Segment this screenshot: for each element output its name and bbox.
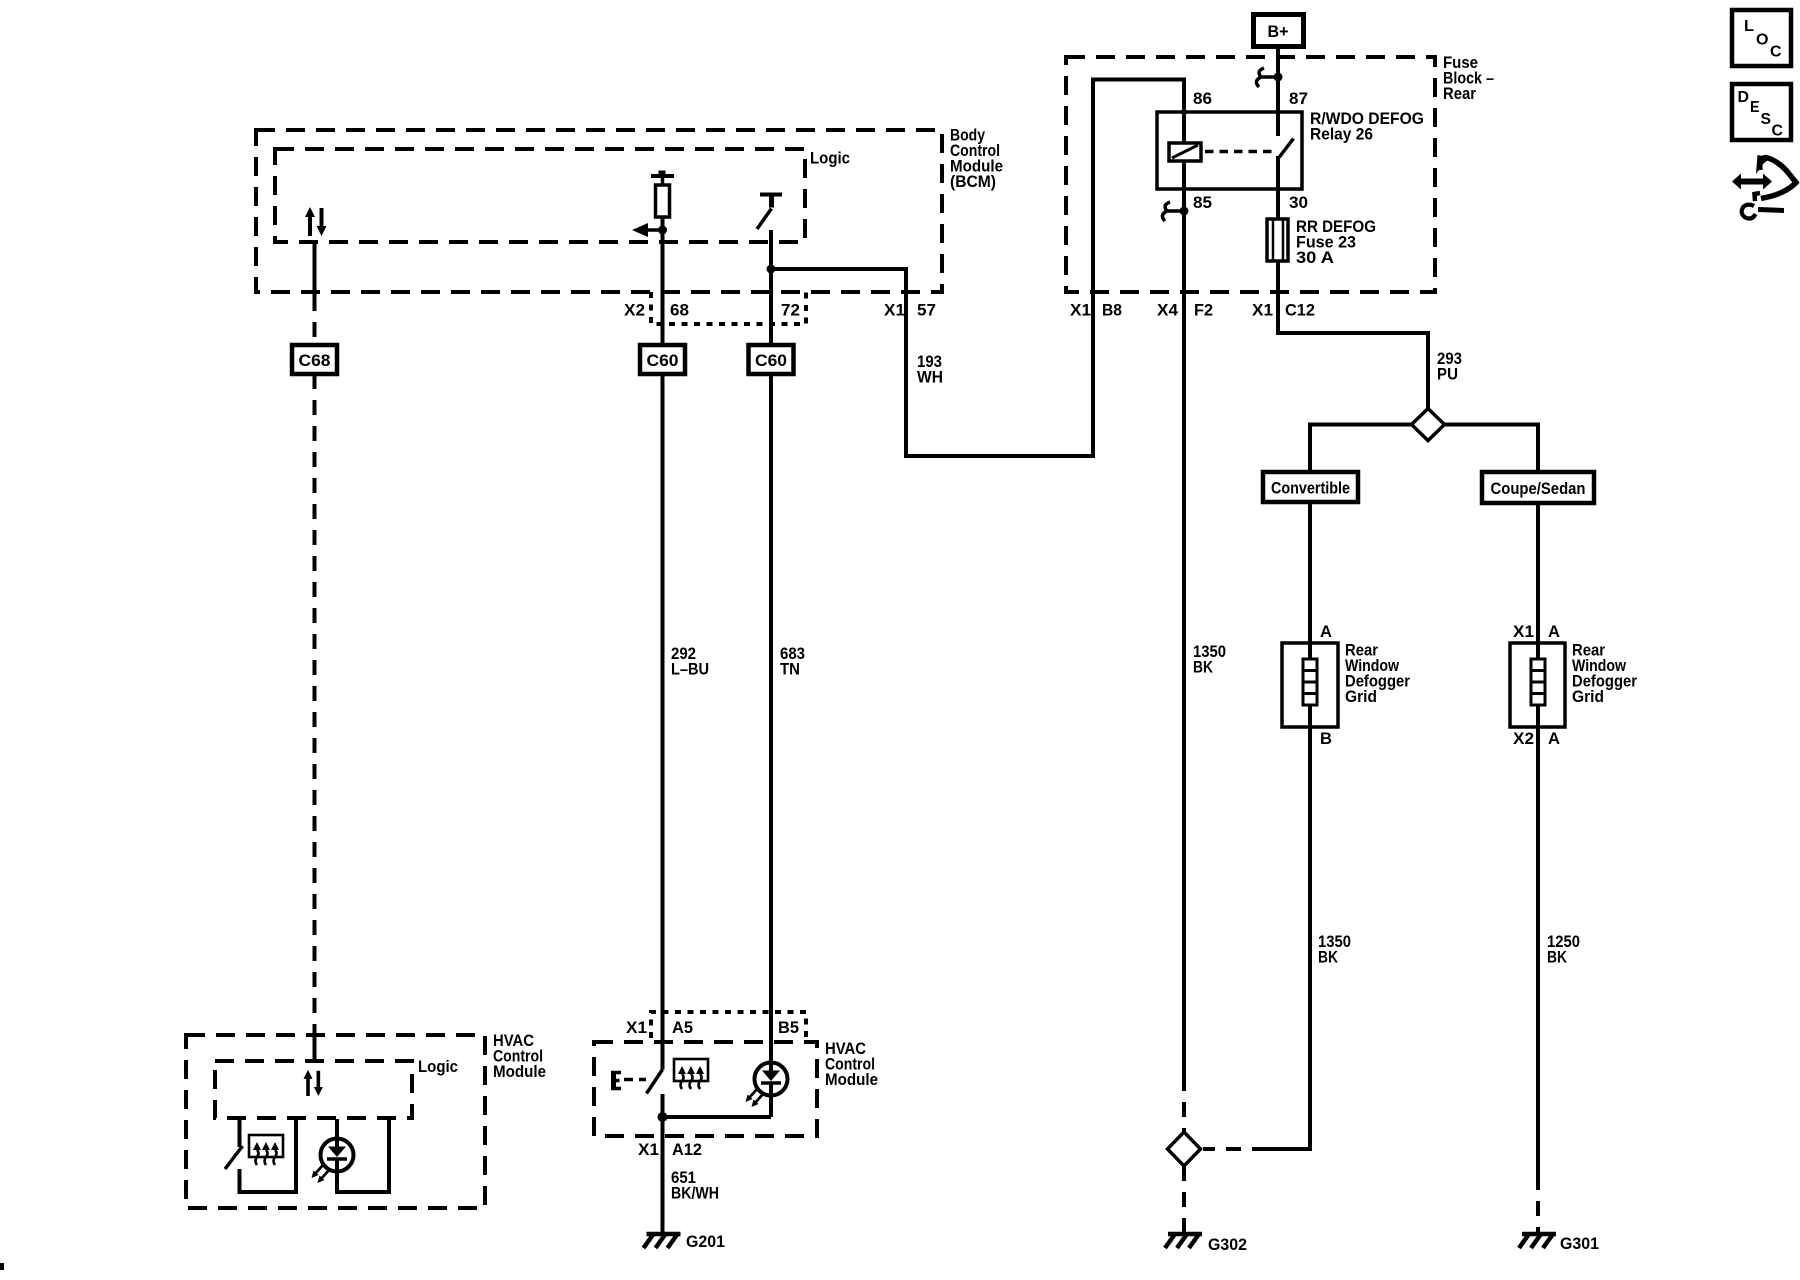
HVAC pin labels X1 A12 <box>638 1140 702 1159</box>
HVAC switch E label <box>611 1071 621 1090</box>
wire 292 L-BU C60 to HVAC A5 <box>661 374 665 1070</box>
pan/tools icon <box>1732 155 1796 219</box>
label wire 293 PU <box>1437 349 1462 384</box>
label wire 1350 BK left <box>1193 642 1226 677</box>
svg-text:X2: X2 <box>1513 729 1534 748</box>
HVAC defrost icon <box>674 1059 708 1089</box>
svg-text:BK: BK <box>1318 948 1339 967</box>
label Rear Window Defogger Grid (convertible) <box>1345 641 1410 707</box>
junction dot resistor output <box>658 226 667 235</box>
wire B+ to relay pin 87 <box>1276 49 1280 112</box>
svg-text:B: B <box>1320 729 1332 748</box>
label HVAC Control Module (mid) <box>825 1039 878 1089</box>
svg-text:Coupe/Sedan: Coupe/Sedan <box>1491 479 1586 498</box>
fuse block pin labels X4 F2 <box>1157 301 1213 320</box>
svg-text:C: C <box>1770 44 1782 61</box>
connector C68 <box>292 345 337 374</box>
svg-text:B5: B5 <box>778 1018 799 1037</box>
svg-text:E: E <box>1750 99 1760 116</box>
svg-text:G302: G302 <box>1208 1235 1247 1254</box>
grid heater element (coupe/sedan) <box>1531 643 1545 727</box>
svg-text:A: A <box>1548 622 1560 641</box>
HVAC left defrost icon <box>249 1135 283 1165</box>
BCM switch blade <box>757 209 772 230</box>
relay pin 86 internal wire <box>1182 112 1186 143</box>
LOC legend box <box>1732 10 1791 66</box>
HVAC switch E dashed link <box>624 1078 646 1082</box>
wire 193 WH route BCM pin 57 to relay pin 86 <box>771 80 1184 457</box>
ground G301 <box>1519 1234 1599 1253</box>
svg-text:C68: C68 <box>299 351 331 370</box>
label wire 683 TN <box>780 644 805 679</box>
DESC legend box <box>1732 84 1791 140</box>
dashed wire to C68 <box>313 296 317 345</box>
BCM logic dashed box <box>275 149 805 242</box>
fuse block pin labels X1 B8 <box>1070 301 1122 320</box>
wire BCM logic to C68 (solid) <box>313 243 317 296</box>
svg-text:85: 85 <box>1193 193 1212 212</box>
body control module dashed enclosure <box>256 130 942 292</box>
label Fuse Block - Rear <box>1443 53 1494 103</box>
clip at relay pin 85 <box>1162 202 1188 221</box>
svg-text:Relay 26: Relay 26 <box>1310 125 1373 144</box>
label HVAC Control Module (left) <box>493 1031 546 1081</box>
label RR DEFOG Fuse 23 30 A <box>1296 217 1376 267</box>
BCM serial data up/down arrows <box>305 207 327 236</box>
wire Convertible box to grid pin A <box>1308 502 1312 643</box>
grid pin labels X2 A bottom <box>1513 729 1560 748</box>
HVAC indicator LED <box>746 1063 788 1108</box>
svg-text:A5: A5 <box>672 1018 693 1037</box>
dashed wire relay 85 branch to splice S2 <box>1182 1076 1186 1132</box>
ground G302 <box>1165 1234 1247 1254</box>
svg-text:X4: X4 <box>1157 301 1179 320</box>
svg-text:G201: G201 <box>686 1232 725 1251</box>
connector C60 wire 292 <box>640 345 685 374</box>
wire 1350 BK grid B to splice S2 <box>1267 727 1310 1149</box>
wire splice to Coupe/Sedan branch <box>1445 425 1539 473</box>
svg-text:X1: X1 <box>1252 301 1273 320</box>
svg-text:F2: F2 <box>1194 301 1213 320</box>
label wire 651 BK/WH <box>671 1168 719 1203</box>
svg-text:B8: B8 <box>1102 301 1122 320</box>
wire splice to Convertible branch <box>1310 425 1412 473</box>
dashed wire C68 to HVAC control module <box>313 374 317 1030</box>
svg-text:72: 72 <box>781 301 800 320</box>
svg-text:Logic: Logic <box>418 1057 458 1076</box>
label Rear Window Defogger Grid (coupe/sedan) <box>1572 641 1637 707</box>
BCM driver resistor top bar <box>651 171 674 177</box>
splice diamond S2 <box>1168 1132 1201 1166</box>
svg-text:B+: B+ <box>1268 22 1289 41</box>
svg-text:X1: X1 <box>626 1018 647 1037</box>
svg-text:S: S <box>1761 111 1772 128</box>
wire 72 inside BCM to C60 <box>769 230 773 346</box>
Coupe/Sedan option box <box>1482 472 1594 503</box>
dashed wire to splice S2 <box>1203 1147 1267 1151</box>
junction dot HVAC <box>658 1112 668 1122</box>
BCM driver resistor <box>656 176 670 217</box>
svg-text:X1: X1 <box>1513 622 1534 641</box>
BCM connector dotted box X2 <box>651 292 806 324</box>
svg-text:A: A <box>1548 729 1560 748</box>
fuse block pin labels X1 C12 <box>1252 301 1315 320</box>
wire 1250 BK grid to ground (solid part) <box>1536 727 1540 1175</box>
svg-text:Grid: Grid <box>1572 687 1604 706</box>
clip at relay pin 87 <box>1256 68 1282 87</box>
svg-text:Grid: Grid <box>1345 687 1377 706</box>
relay R/WDO DEFOG Relay 26 box <box>1157 112 1302 189</box>
dashed wire splice S2 to ground G302 <box>1182 1166 1186 1232</box>
svg-text:X1: X1 <box>638 1140 659 1159</box>
svg-text:WH: WH <box>917 368 943 387</box>
svg-text:PU: PU <box>1437 365 1458 384</box>
svg-text:Module: Module <box>493 1062 546 1081</box>
HVAC logic dashed box <box>215 1061 412 1118</box>
svg-text:30: 30 <box>1289 193 1308 212</box>
svg-text:Module: Module <box>825 1070 878 1089</box>
wire 293 PU fuse output <box>1278 261 1428 409</box>
relay coil <box>1169 143 1201 161</box>
svg-text:X2: X2 <box>624 301 645 320</box>
svg-text:BK: BK <box>1547 948 1568 967</box>
wire 683 TN C60 to HVAC B5 <box>769 374 773 1063</box>
Convertible option box <box>1263 472 1358 502</box>
wire Coupe/Sedan box to grid pin X1 A <box>1536 503 1540 643</box>
svg-text:L–BU: L–BU <box>671 660 709 679</box>
HVAC left LED sub-circuit <box>337 1119 389 1192</box>
svg-text:(BCM): (BCM) <box>950 172 996 191</box>
HVAC pin labels X1 A5 B5 <box>626 1018 799 1037</box>
connector C60 wire 683 <box>749 345 794 374</box>
svg-text:A12: A12 <box>672 1140 702 1159</box>
BCM output arrow left <box>632 223 661 237</box>
fuse block - rear dashed enclosure <box>1066 57 1435 292</box>
svg-text:O: O <box>1756 32 1769 49</box>
page corner mark <box>0 1263 4 1270</box>
HVAC serial data up/down arrows <box>304 1070 323 1096</box>
wire relay pin 85 to G302 branch (solid part) <box>1182 189 1186 1076</box>
HVAC control module dashed box <box>594 1042 817 1136</box>
svg-text:30 A: 30 A <box>1296 248 1334 267</box>
relay pin 30 internal wire <box>1276 156 1280 189</box>
svg-text:68: 68 <box>670 301 689 320</box>
svg-text:TN: TN <box>780 660 800 679</box>
wire 68 inside BCM to C60 <box>661 217 665 346</box>
relay switch contact 87 <box>1276 112 1280 136</box>
label wire 292 L-BU <box>671 644 709 679</box>
wire switch to junction <box>661 1094 665 1232</box>
label wire 1250 BK <box>1547 932 1580 967</box>
svg-text:X1: X1 <box>1070 301 1091 320</box>
HVAC connector dotted box X1 <box>651 1012 806 1038</box>
HVAC control module dashed enclosure (left) <box>186 1035 485 1208</box>
svg-text:Logic: Logic <box>810 149 850 168</box>
svg-text:86: 86 <box>1193 89 1212 108</box>
rear window defogger grid (convertible) box <box>1282 643 1338 727</box>
fuse RR DEFOG Fuse 23 30 A <box>1267 189 1288 261</box>
BCM pin labels X2 68 <box>624 301 689 320</box>
svg-text:A: A <box>1320 622 1332 641</box>
wire LED to junction <box>769 1096 773 1118</box>
splice diamond S1 <box>1412 409 1445 441</box>
svg-text:C60: C60 <box>647 351 679 370</box>
wire junction to LED branch <box>663 1115 772 1119</box>
relay pin 85 internal wire <box>1182 161 1186 189</box>
svg-text:G301: G301 <box>1560 1234 1599 1253</box>
grid heater element (convertible) <box>1303 643 1317 727</box>
svg-text:X1: X1 <box>884 301 905 320</box>
relay switch blade <box>1279 139 1294 158</box>
BCM switch fixed contact <box>760 195 782 208</box>
svg-text:L: L <box>1744 18 1754 35</box>
HVAC left indicator LED <box>312 1139 354 1184</box>
label Body Control Module (BCM) <box>950 126 1003 192</box>
svg-text:BK/WH: BK/WH <box>671 1184 719 1203</box>
dashed wire to ground G301 <box>1536 1175 1540 1232</box>
svg-text:Convertible: Convertible <box>1271 479 1350 498</box>
svg-text:BK: BK <box>1193 658 1214 677</box>
HVAC defog switch blade <box>647 1070 663 1094</box>
label wire 1350 BK (convertible) <box>1318 932 1351 967</box>
relay actuation dashed link <box>1205 150 1272 154</box>
junction on wire 72 <box>767 265 776 274</box>
svg-text:D: D <box>1738 89 1750 106</box>
svg-text:57: 57 <box>917 301 936 320</box>
grid pin labels X1 A top <box>1513 622 1560 641</box>
battery B+ terminal <box>1254 15 1304 47</box>
HVAC left switch sub-circuit <box>225 1119 296 1192</box>
BCM pin labels X1 57 <box>884 301 936 320</box>
svg-text:C: C <box>1772 123 1784 140</box>
rear window defogger grid (coupe/sedan) box <box>1510 643 1565 727</box>
svg-text:Rear: Rear <box>1443 84 1476 103</box>
label R/WDO DEFOG Relay 26 <box>1310 109 1424 144</box>
svg-text:C12: C12 <box>1285 301 1315 320</box>
wire into HVAC logic (solid) <box>313 1030 317 1061</box>
svg-text:87: 87 <box>1289 89 1308 108</box>
label wire 193 WH <box>917 352 943 387</box>
svg-text:C60: C60 <box>755 351 787 370</box>
ground G201 <box>644 1232 726 1251</box>
